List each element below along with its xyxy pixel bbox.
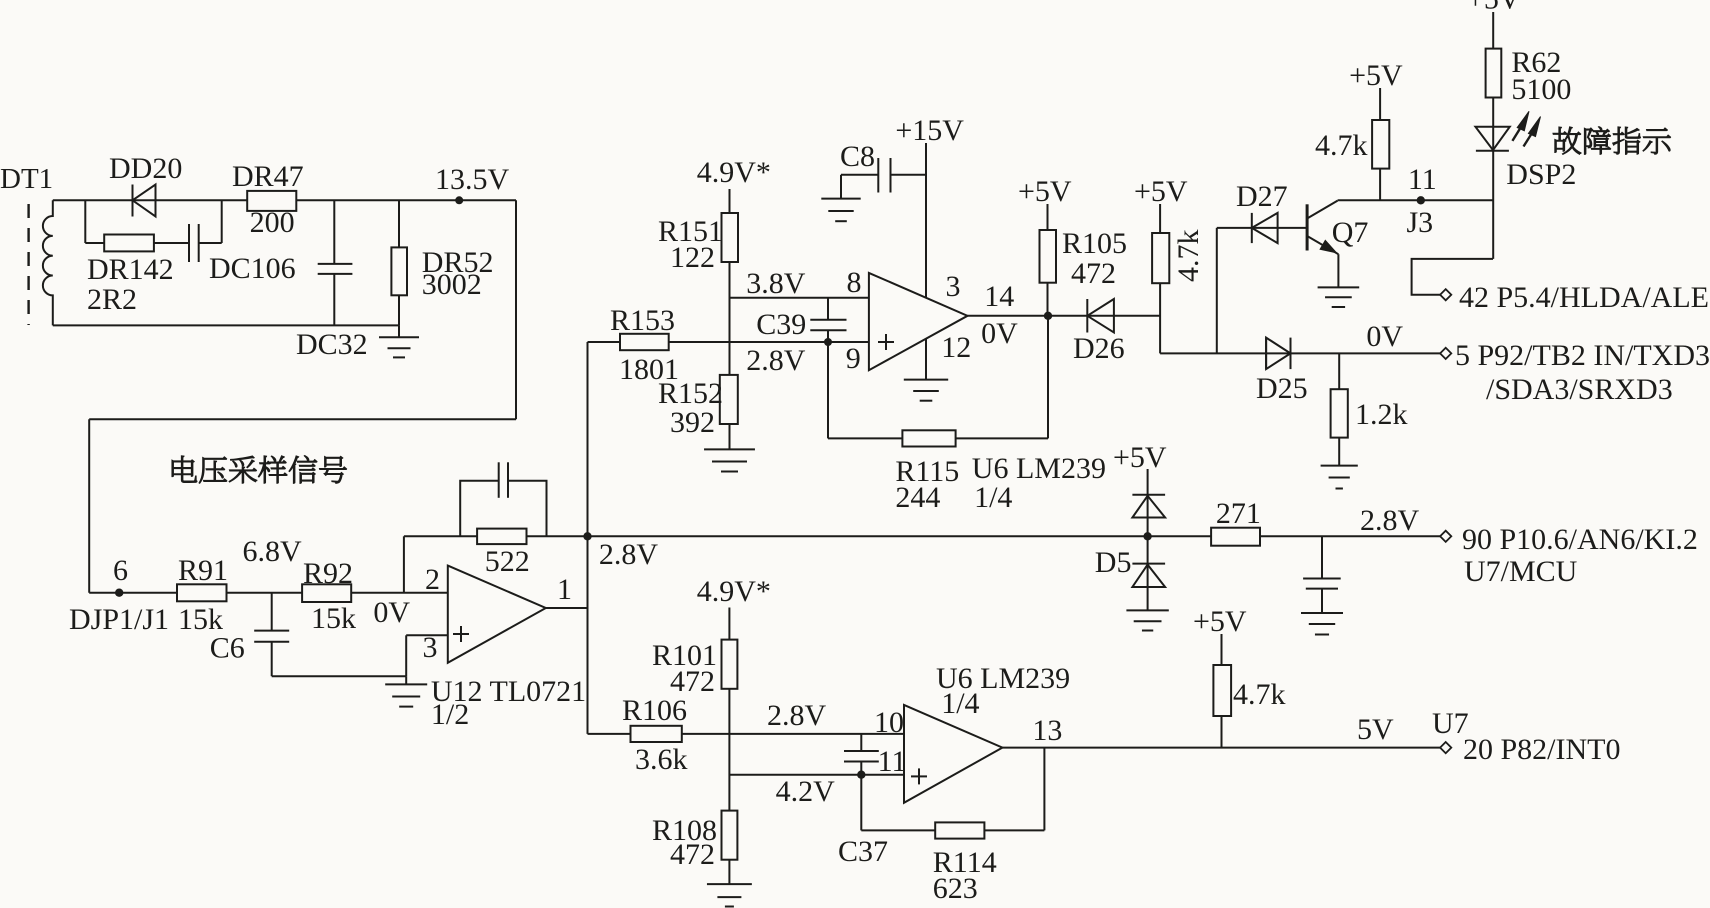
svg-text:2.8V: 2.8V: [1360, 504, 1420, 537]
resistor R106 3.6k: [588, 733, 631, 735]
svg-text:13: 13: [1032, 714, 1062, 747]
svg-text:R91: R91: [178, 554, 228, 587]
svg-text:11: 11: [1408, 163, 1437, 196]
svg-text:8: 8: [847, 266, 862, 299]
svg-text:200: 200: [250, 206, 295, 239]
svg-text:90 P10.6/AN6/KI.2: 90 P10.6/AN6/KI.2: [1462, 523, 1698, 556]
ground at DC32/DR52: [398, 325, 400, 337]
svg-text:4.9V*: 4.9V*: [697, 156, 771, 189]
svg-text:C6: C6: [210, 632, 245, 665]
capacitor C37: [860, 734, 862, 751]
svg-text:271: 271: [1216, 497, 1261, 530]
svg-text:13.5V: 13.5V: [435, 163, 510, 196]
svg-text:42 P5.4/HLDA/ALE: 42 P5.4/HLDA/ALE: [1459, 281, 1709, 314]
svg-text:10: 10: [874, 706, 904, 739]
feedback resistor R114 623: [860, 775, 862, 831]
svg-text:DD20: DD20: [109, 152, 182, 185]
resistor R108 472: [722, 811, 738, 860]
feedback resistor R115 244: [827, 342, 829, 438]
feedback capacitor: [460, 481, 499, 537]
ground at C8: [821, 198, 860, 200]
resistor R153 1801: [588, 341, 621, 343]
svg-text:623: 623: [933, 872, 978, 905]
svg-text:DSP2: DSP2: [1506, 158, 1576, 191]
svg-text:DJP1/J1: DJP1/J1: [69, 603, 169, 636]
svg-text:5 P92/TB2 IN/TXD3: 5 P92/TB2 IN/TXD3: [1455, 339, 1710, 372]
svg-text:DR142: DR142: [87, 253, 174, 286]
transistor Q7: [1306, 204, 1309, 250]
diode D5 upper: [1147, 469, 1149, 536]
svg-text:9: 9: [846, 342, 861, 375]
svg-text:C39: C39: [756, 308, 806, 341]
capacitor C39: [827, 298, 829, 320]
svg-text:392: 392: [670, 406, 715, 439]
ground at R152: [704, 448, 755, 450]
svg-text:20 P82/INT0: 20 P82/INT0: [1463, 733, 1621, 766]
node pin 6 DJP1/J1: [89, 592, 177, 594]
wire 13.5V feed down-left to J1: [515, 200, 517, 419]
svg-text:U7/MCU: U7/MCU: [1464, 555, 1578, 588]
resistor 271: [1211, 528, 1260, 546]
svg-text:0V: 0V: [981, 317, 1018, 350]
svg-text:4.2V: 4.2V: [776, 775, 836, 808]
svg-text:3002: 3002: [422, 268, 482, 301]
resistor R91 15k: [177, 584, 227, 601]
svg-text:DT1: DT1: [0, 163, 53, 195]
svg-text:R153: R153: [610, 304, 675, 337]
svg-text:R105: R105: [1062, 227, 1127, 260]
svg-text:244: 244: [895, 481, 940, 514]
wire U12 output pin1: [546, 607, 588, 609]
svg-text:DC106: DC106: [209, 252, 296, 285]
wire pin9 2.8V: [669, 341, 869, 343]
svg-text:C8: C8: [840, 140, 875, 173]
ground at R108: [707, 883, 752, 885]
svg-text:1/4: 1/4: [974, 481, 1012, 514]
svg-text:+5V: +5V: [1134, 175, 1188, 208]
wire pin10 2.8V: [682, 733, 904, 735]
LED flash arrows: [1512, 127, 1521, 141]
wire D27 branch: [1216, 228, 1218, 354]
svg-text:3.8V: 3.8V: [746, 267, 806, 300]
svg-text:DR47: DR47: [232, 160, 304, 193]
connector 5 P92/TB2: [1440, 348, 1451, 359]
svg-text:0V: 0V: [373, 596, 410, 629]
svg-text:3: 3: [423, 631, 438, 664]
op-amp U6 LM239 1/4 lower: [904, 705, 1002, 803]
svg-text:15k: 15k: [311, 602, 356, 635]
svg-text:4.9V*: 4.9V*: [697, 575, 771, 608]
resistor DR142 2R2: [104, 235, 154, 252]
svg-text:4.7k: 4.7k: [1233, 678, 1286, 711]
svg-text:6: 6: [113, 554, 128, 587]
wire transformer bottom rail: [53, 324, 399, 326]
svg-text:+5V: +5V: [1018, 175, 1072, 208]
svg-text:6.8V: 6.8V: [243, 535, 303, 568]
wire U6 pin12 to ground: [925, 339, 927, 380]
ground at Q7 emitter: [1318, 286, 1360, 288]
wire C6 to U12 pin3: [272, 675, 407, 677]
wire pin8 3.8V: [730, 297, 869, 299]
svg-text:3.6k: 3.6k: [635, 743, 688, 776]
wire R92 to U12 pin2 0V: [351, 592, 448, 594]
svg-text:+15V: +15V: [895, 114, 964, 147]
resistor R151 122: [729, 189, 731, 213]
svg-text:1: 1: [557, 573, 572, 606]
svg-text:1.2k: 1.2k: [1355, 398, 1408, 431]
svg-text:R106: R106: [622, 694, 687, 727]
op-amp U12 TL0721 1/2: [448, 566, 546, 663]
svg-text:R92: R92: [303, 557, 353, 590]
wire to D25: [1160, 352, 1440, 354]
svg-text:Q7: Q7: [1332, 216, 1369, 249]
svg-text:C37: C37: [838, 835, 888, 868]
svg-text:122: 122: [670, 241, 715, 274]
svg-text:472: 472: [670, 838, 715, 871]
wire vertical bus: [587, 342, 589, 734]
wire DR142 branch right: [221, 200, 223, 243]
ground at MCU input cap: [1301, 612, 1343, 614]
wire pin11 4.2V: [729, 774, 904, 776]
svg-text:1/4: 1/4: [941, 687, 979, 720]
transformer DT1 primary dashed line: [27, 204, 29, 325]
resistor R92 15k: [302, 584, 351, 602]
svg-text:2.8V: 2.8V: [599, 538, 659, 571]
ground at U12 pin3: [405, 676, 407, 684]
svg-text:D27: D27: [1236, 180, 1288, 213]
svg-text:522: 522: [485, 545, 530, 578]
node pin14: [1044, 312, 1052, 320]
svg-text:+5V: +5V: [1349, 59, 1403, 92]
wire top rail 13.5V: [53, 199, 516, 201]
wire collector rail J3: [1338, 199, 1494, 201]
ground at U6 pin12: [904, 379, 948, 381]
svg-text:2: 2: [425, 563, 440, 596]
svg-text:4.7k: 4.7k: [1315, 129, 1368, 162]
svg-text:2.8V: 2.8V: [767, 699, 827, 732]
resistor R101 472: [728, 608, 730, 640]
resistor DR47 200: [247, 191, 296, 211]
svg-text:3: 3: [946, 270, 961, 303]
wire divider R101-R108: [728, 689, 730, 811]
svg-text:1/2: 1/2: [431, 698, 469, 731]
resistor 4.7k vertical-label: [1159, 204, 1161, 233]
wire 2.8V bus: [588, 535, 1212, 537]
diode D5 lower: [1147, 536, 1149, 610]
svg-text:D26: D26: [1073, 332, 1125, 365]
diode D26: [1086, 299, 1088, 333]
resistor 4.7k INT0 pullup: [1221, 634, 1223, 665]
node D5: [1143, 532, 1151, 540]
node J3 pin 11: [1417, 196, 1425, 204]
resistor R152 392: [720, 375, 738, 424]
LED DSP2: [1492, 98, 1494, 259]
diode D27: [1251, 213, 1253, 243]
node C39 pin9: [824, 338, 832, 346]
op-amp U6 LM239 1/4 upper: [869, 273, 968, 370]
svg-text:14: 14: [984, 280, 1014, 313]
svg-text:DC32: DC32: [296, 328, 368, 361]
label voltage sampling signal: [172, 456, 197, 483]
svg-text:J3: J3: [1407, 206, 1434, 239]
wire U6a output pin14 0V: [968, 315, 1161, 317]
capacitor DC32: [333, 200, 335, 264]
svg-text:0V: 0V: [1366, 320, 1403, 353]
wire 271 to connector: [1260, 535, 1440, 537]
connector 42 P5.4/HLDA/ALE: [1440, 289, 1451, 300]
svg-text:5100: 5100: [1511, 73, 1571, 106]
node C37 pin11: [857, 771, 865, 779]
connector 90 P10.6/AN6/KI.2: [1440, 531, 1451, 542]
svg-text:+5V: +5V: [1113, 441, 1167, 474]
resistor R105 472: [1047, 204, 1049, 230]
svg-text:D25: D25: [1256, 372, 1308, 405]
svg-text:1801: 1801: [619, 353, 679, 386]
wire LED to connector 42: [1412, 259, 1493, 295]
node 2.8V output: [583, 532, 591, 540]
transformer DT1 winding: [43, 200, 53, 325]
label fault indication: [1553, 127, 1581, 154]
svg-text:+5V: +5V: [1193, 605, 1247, 638]
capacitor C6: [271, 593, 273, 631]
svg-text:12: 12: [941, 331, 971, 364]
svg-text:472: 472: [1071, 257, 1116, 290]
diode D25: [1265, 338, 1267, 370]
resistor R62 5100: [1492, 12, 1494, 49]
ground at D5: [1126, 609, 1168, 611]
wire R91-R92 node 6.8V: [227, 592, 303, 594]
resistor 4.7k base pullup: [1379, 88, 1381, 120]
svg-text:11: 11: [878, 745, 907, 778]
svg-text:4.7k: 4.7k: [1172, 230, 1205, 283]
svg-text:/SDA3/SRXD3: /SDA3/SRXD3: [1486, 373, 1673, 406]
wire U6b output pin13 5V: [1002, 747, 1440, 749]
ground at 1.2k: [1321, 465, 1358, 467]
feedback resistor 522: [403, 536, 405, 592]
svg-text:2.8V: 2.8V: [746, 344, 806, 377]
capacitor at MCU input: [1321, 536, 1323, 578]
diode DD20: [132, 185, 134, 217]
wire divider R151-R152: [729, 262, 731, 375]
svg-text:D5: D5: [1095, 546, 1132, 579]
resistor DR52 3002: [398, 200, 400, 247]
svg-text:2R2: 2R2: [87, 283, 137, 316]
resistor 1.2k: [1338, 353, 1340, 389]
wire DR142 branch left: [84, 200, 86, 243]
svg-text:5V: 5V: [1357, 713, 1394, 746]
capacitor DC106: [188, 224, 190, 262]
